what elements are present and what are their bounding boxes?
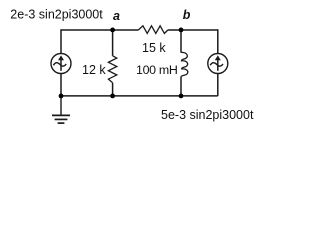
wire right branch lower	[217, 73, 219, 96]
wire top-left segment	[61, 29, 139, 31]
wire top-right segment	[168, 29, 218, 31]
wire left branch lower	[60, 73, 62, 96]
svg-text:12 k: 12 k	[82, 63, 106, 77]
svg-text:b: b	[183, 8, 191, 22]
current source I1 (left, 2e-3 sin2pi3000t)	[51, 54, 71, 74]
resistor 15 k (horizontal, top)	[139, 26, 169, 34]
wire node a upper	[112, 30, 114, 56]
svg-text:100 mH: 100 mH	[136, 63, 178, 77]
wire bottom	[61, 95, 218, 97]
svg-text:2e-3 sin2pi3000t: 2e-3 sin2pi3000t	[10, 8, 103, 22]
ground	[52, 96, 70, 123]
wire node a lower	[112, 83, 114, 96]
svg-text:5e-3 sin2pi3000t: 5e-3 sin2pi3000t	[161, 108, 254, 122]
node b junction dot (top)	[179, 28, 184, 33]
wire node b upper	[180, 30, 182, 53]
current source I2 (right, 5e-3 sin2pi3000t)	[208, 54, 228, 74]
wire node b lower	[180, 77, 182, 96]
inductor 100 mH (vertical coil)	[181, 52, 188, 77]
junction dot bottom-left (ground node)	[59, 94, 64, 99]
junction dot bottom node b branch	[179, 94, 184, 99]
svg-text:15 k: 15 k	[142, 41, 166, 55]
svg-text:a: a	[113, 9, 120, 23]
resistor 12 k (vertical)	[108, 56, 116, 83]
wire left branch upper	[60, 29, 62, 53]
node a junction dot (top)	[110, 28, 115, 33]
junction dot bottom node a branch	[110, 94, 115, 99]
wire right branch upper	[217, 29, 219, 53]
